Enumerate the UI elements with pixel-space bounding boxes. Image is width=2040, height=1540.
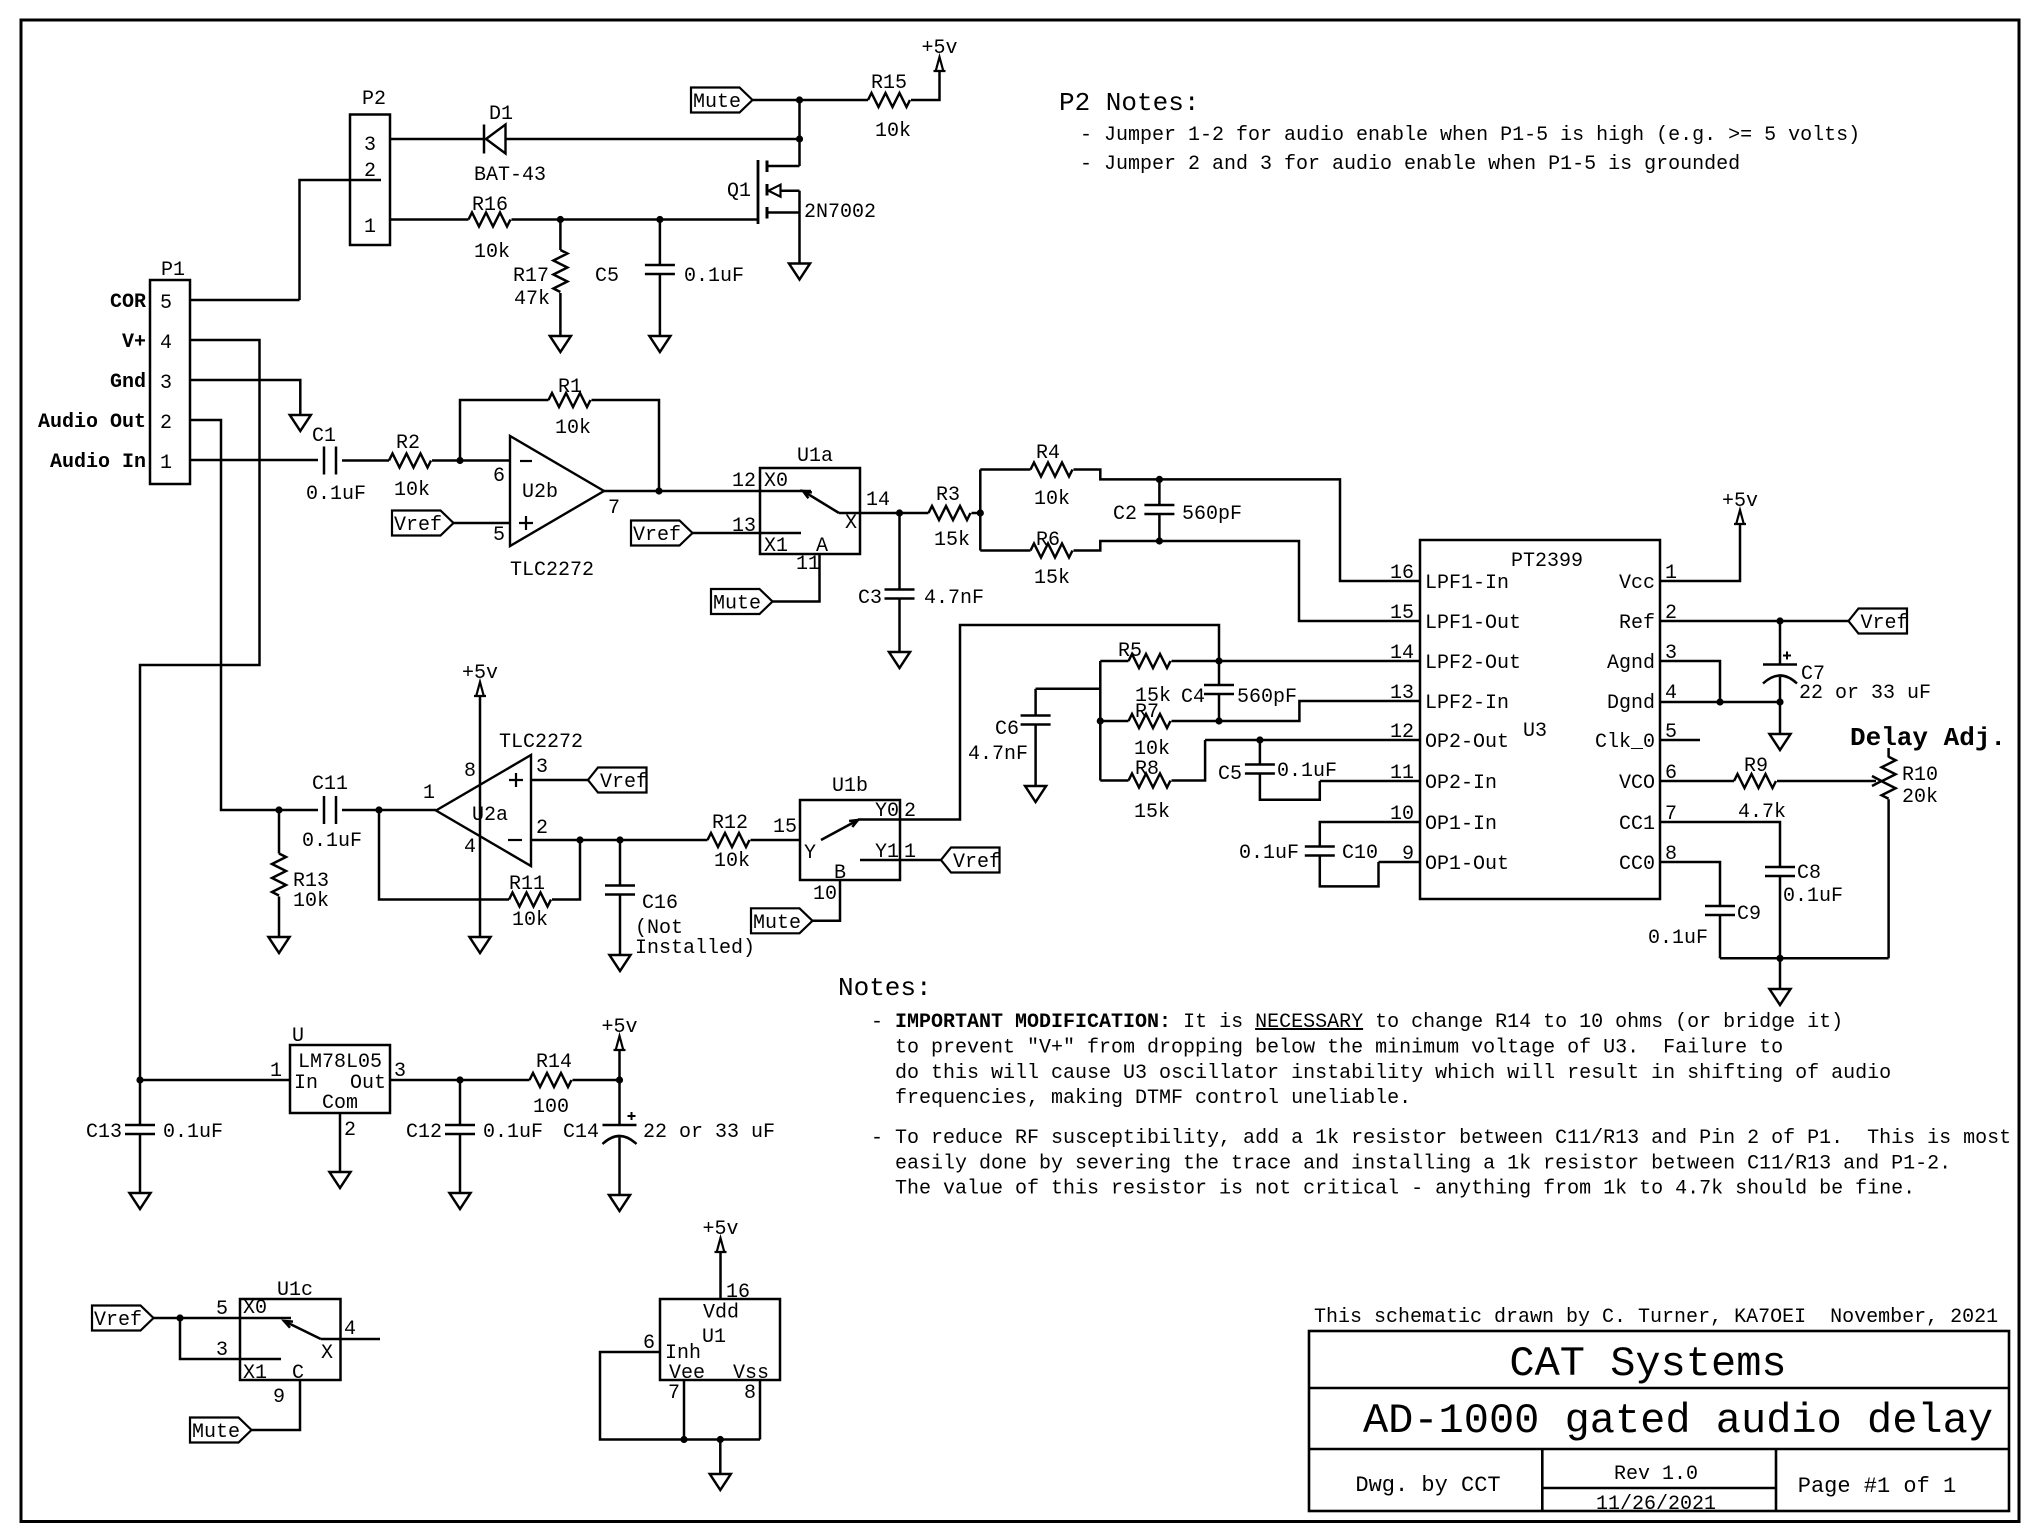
svg-text:8: 8 — [464, 760, 476, 783]
wire X node to R3 — [900, 512, 929, 515]
capacitor C8 0.1uF — [1765, 862, 1843, 958]
resistor R5 15k — [1100, 640, 1219, 708]
junction U1c X0/X1 — [176, 1314, 183, 1321]
analog switch U1b — [773, 775, 916, 906]
capacitor C9 0.1uF — [1648, 903, 1761, 958]
svg-text:In: In — [294, 1072, 318, 1095]
junction R17 tap — [557, 216, 564, 223]
svg-text:10k: 10k — [293, 890, 329, 913]
svg-text:OP2-Out: OP2-Out — [1425, 731, 1509, 754]
junction C2 bottom — [1156, 537, 1163, 544]
ground CC bus — [1770, 989, 1791, 1005]
svg-text:Vref: Vref — [394, 514, 442, 537]
svg-text:Y: Y — [804, 842, 816, 865]
junction R5 right / pin14 node — [1215, 657, 1222, 664]
svg-text:Com: Com — [322, 1092, 358, 1115]
wire C2 bottom to U3 pin15 — [1159, 541, 1420, 621]
resistor R17 47k — [513, 220, 567, 337]
text note 1 — [871, 1011, 1891, 1110]
resistor R15 10k — [868, 72, 911, 143]
svg-text:C14: C14 — [563, 1121, 599, 1144]
svg-text:13: 13 — [1390, 682, 1414, 705]
svg-text:R11: R11 — [509, 873, 545, 896]
potentiometer R10 20k Delay Adj — [1882, 748, 1938, 958]
svg-text:7: 7 — [608, 497, 620, 520]
svg-text:14: 14 — [866, 489, 890, 512]
resistor R14 100 — [530, 1051, 573, 1119]
junction U2b output — [655, 487, 662, 494]
wire U1b Y0 to LPF2 node — [900, 625, 1219, 820]
svg-text:3: 3 — [364, 134, 376, 157]
svg-text:easily done by severing the tr: easily done by severing the trace and in… — [895, 1153, 1951, 1176]
svg-text:Mute: Mute — [753, 912, 801, 935]
capacitor C5 0.1uF — [595, 220, 744, 337]
wire U2a power rail — [479, 696, 482, 937]
diode D1 BAT-43 — [474, 103, 546, 187]
wire U3 Dgnd node — [1660, 701, 1780, 704]
svg-text:Notes:: Notes: — [838, 973, 932, 1003]
svg-text:CAT Systems: CAT Systems — [1509, 1340, 1786, 1388]
svg-text:TLC2272: TLC2272 — [499, 731, 583, 754]
junction C3 node — [896, 509, 903, 516]
wire C1 to R2 — [342, 459, 389, 462]
resistor R6 15k — [980, 529, 1159, 590]
svg-text:2: 2 — [536, 817, 548, 840]
svg-text:Dwg. by CCT: Dwg. by CCT — [1355, 1473, 1500, 1498]
svg-text:OP2-In: OP2-In — [1425, 772, 1497, 795]
ground C5 — [649, 336, 670, 352]
svg-text:C3: C3 — [858, 587, 882, 610]
IC U1 power pins — [643, 1299, 780, 1405]
svg-text:4: 4 — [344, 1318, 356, 1341]
resistor R2 10k — [389, 432, 431, 502]
svg-text:- Jumper 1-2 for audio enable: - Jumper 1-2 for audio enable when P1-5 … — [1080, 124, 1860, 147]
svg-text:Audio Out: Audio Out — [38, 411, 146, 434]
resistor R3 15k — [929, 484, 971, 552]
svg-text:X0: X0 — [243, 1297, 267, 1320]
resistor R16 10k — [469, 194, 511, 264]
wire Mute to U1a A pin11 — [773, 554, 820, 602]
svg-text:R5: R5 — [1118, 640, 1142, 663]
net tag Vref (U1a X1) — [631, 521, 693, 548]
svg-text:Clk_0: Clk_0 — [1595, 731, 1655, 754]
junction ground drop — [717, 1436, 724, 1443]
ground C13 — [130, 1193, 151, 1209]
svg-text:9: 9 — [1402, 843, 1414, 866]
svg-text:0.1uF: 0.1uF — [1783, 885, 1843, 908]
connector P2 — [350, 88, 390, 245]
svg-text:15k: 15k — [934, 529, 970, 552]
wire P1-1 Audio In — [190, 459, 318, 462]
svg-text:5: 5 — [493, 524, 505, 547]
svg-text:15k: 15k — [1034, 567, 1070, 590]
switch U1c wiper — [284, 1321, 321, 1339]
wire P1-2 Audio Out — [190, 420, 318, 810]
svg-text:R6: R6 — [1036, 529, 1060, 552]
wire bottom bus to ground — [1779, 958, 1782, 989]
svg-text:U1a: U1a — [797, 445, 833, 468]
svg-text:BAT-43: BAT-43 — [474, 164, 546, 187]
wire U1b Y0 stub — [858, 818, 900, 821]
svg-text:+5v: +5v — [1722, 490, 1758, 513]
svg-text:CC1: CC1 — [1619, 813, 1655, 836]
wire U3 Clk_0 stub — [1660, 739, 1700, 742]
wire +5v to U1 Vdd — [721, 1252, 751, 1304]
transistor Q1 2N7002 — [727, 160, 876, 264]
wire U1 bus to ground — [719, 1440, 722, 1475]
junction R4/R6 rail — [977, 509, 984, 516]
text Dwg. by CCT — [1355, 1473, 1500, 1498]
svg-text:R2: R2 — [396, 432, 420, 455]
net tag Mute (U1b B) — [751, 908, 813, 935]
svg-text:8: 8 — [744, 1382, 756, 1405]
svg-text:0.1uF: 0.1uF — [302, 830, 362, 853]
wire U1 Vss pin8 — [759, 1380, 762, 1440]
svg-text:P1: P1 — [161, 259, 185, 282]
svg-text:The value of this resistor is: The value of this resistor is not critic… — [895, 1178, 1915, 1201]
svg-text:C8: C8 — [1797, 862, 1821, 885]
svg-text:Vcc: Vcc — [1619, 572, 1655, 595]
svg-text:+5v: +5v — [601, 1016, 637, 1039]
text CAT Systems — [1509, 1340, 1786, 1388]
svg-text:11/26/2021: 11/26/2021 — [1596, 1493, 1716, 1516]
wire U1c X output — [321, 1338, 380, 1341]
svg-text:X1: X1 — [243, 1362, 267, 1385]
wire C2 top to U3 pin16 — [1159, 479, 1420, 581]
switch U1a wiper — [803, 491, 839, 513]
wire R14 to +5v node — [573, 1079, 620, 1082]
capacitor C12 0.1uF — [406, 1080, 543, 1193]
svg-text:TLC2272: TLC2272 — [510, 559, 594, 582]
ground R17 — [550, 336, 571, 352]
svg-text:2: 2 — [160, 412, 172, 435]
capacitor C6 4.7nF — [968, 689, 1100, 786]
svg-text:3: 3 — [160, 372, 172, 395]
svg-text:22 or 33 uF: 22 or 33 uF — [1799, 682, 1931, 705]
wire Vref to U2b pin5 — [454, 522, 511, 525]
svg-text:4.7k: 4.7k — [1738, 801, 1786, 824]
junction R7 right — [1215, 717, 1222, 724]
junction bottom bus — [1776, 955, 1783, 962]
svg-text:6: 6 — [493, 465, 505, 488]
junction C12 node — [456, 1076, 463, 1083]
svg-text:LM78L05: LM78L05 — [298, 1051, 382, 1074]
wire U3 Ref to Vref — [1660, 620, 1849, 623]
svg-text:0.1uF: 0.1uF — [163, 1121, 223, 1144]
capacitor C11 0.1uF — [302, 773, 362, 853]
svg-text:10k: 10k — [875, 120, 911, 143]
wire P2-1 to R16 — [390, 218, 469, 221]
svg-text:Vdd: Vdd — [703, 1302, 739, 1325]
wire R16 to Q1 gate — [512, 218, 759, 221]
svg-text:- To reduce RF susceptibility,: - To reduce RF susceptibility, add a 1k … — [871, 1127, 2011, 1150]
svg-text:C4: C4 — [1181, 686, 1205, 709]
wire Mute to R15 — [753, 99, 868, 102]
wire R5/R7 left rail — [1099, 661, 1102, 781]
svg-text:2: 2 — [904, 800, 916, 823]
svg-text:X1: X1 — [764, 535, 788, 558]
svg-text:16: 16 — [1390, 562, 1414, 585]
junction C5 tap — [656, 216, 663, 223]
ground P1-3 — [290, 415, 311, 431]
svg-text:U1c: U1c — [277, 1279, 313, 1302]
wire Vref to U1c X0 — [154, 1317, 292, 1320]
junction C2 top — [1156, 476, 1163, 483]
net tag Mute (gate node) — [691, 88, 753, 115]
net tag Mute (U1a A) — [711, 589, 773, 616]
svg-text:R4: R4 — [1036, 442, 1060, 465]
wire U2a pin3 to Vref — [531, 779, 588, 782]
svg-text:This schematic drawn by C. Tur: This schematic drawn by C. Turner, KA7OE… — [1314, 1306, 1998, 1329]
svg-text:C13: C13 — [86, 1121, 122, 1144]
text Notes — [838, 973, 932, 1003]
wire U1 Vee pin7 — [683, 1380, 686, 1440]
text drawn-by credit — [1314, 1306, 1998, 1329]
op-amp U2b TLC2272 — [493, 436, 620, 582]
svg-text:11: 11 — [796, 553, 820, 576]
analog switch U1a — [732, 445, 890, 576]
svg-text:R9: R9 — [1744, 755, 1768, 778]
svg-text:22 or 33 uF: 22 or 33 uF — [643, 1121, 775, 1144]
junction C16 node — [616, 836, 623, 843]
wire R8 to U3 pin12 — [1205, 739, 1420, 742]
wire U1 Inh loop — [600, 1352, 760, 1440]
ground R13 — [269, 937, 290, 953]
wire C11 to U2a pin1 — [342, 809, 436, 812]
wire U3 Vcc to +5v — [1660, 524, 1740, 581]
power +5v (U1 Vdd) — [702, 1218, 738, 1252]
svg-text:7: 7 — [668, 1382, 680, 1405]
wire U3 CC0 to C9 — [1660, 862, 1720, 906]
junction C5 (OP2) node — [1256, 736, 1263, 743]
wire D1 to Q1 drain node — [506, 138, 800, 141]
svg-text:Page #1 of 1: Page #1 of 1 — [1798, 1474, 1956, 1499]
wire pin14 LPF2-Out — [1219, 660, 1420, 663]
svg-text:4.7nF: 4.7nF — [924, 587, 984, 610]
wire P2-3 to D1 — [390, 138, 484, 141]
connector P1 — [38, 259, 190, 484]
wire U1a X output — [839, 512, 900, 515]
wire CC0/CC1 bottom bus — [1720, 957, 1889, 960]
svg-text:AD-1000 gated audio delay: AD-1000 gated audio delay — [1363, 1397, 1993, 1445]
svg-text:12: 12 — [732, 470, 756, 493]
svg-text:2N7002: 2N7002 — [804, 201, 876, 224]
net tag Vref (U1c X0) — [92, 1306, 154, 1333]
svg-text:Q1: Q1 — [727, 180, 751, 203]
wire P2-2 to P1-5 — [300, 180, 382, 300]
svg-text:Vref: Vref — [633, 524, 681, 547]
capacitor C2 560pF — [1113, 479, 1242, 541]
svg-text:frequencies, making DTMF contr: frequencies, making DTMF control uneliab… — [895, 1087, 1411, 1110]
svg-text:C5: C5 — [595, 265, 619, 288]
svg-text:+5v: +5v — [462, 662, 498, 685]
svg-text:10k: 10k — [394, 479, 430, 502]
ground C7 — [1770, 734, 1791, 750]
svg-text:560pF: 560pF — [1182, 503, 1242, 526]
junction V+ / C13 — [136, 1076, 143, 1083]
svg-text:- IMPORTANT MODIFICATION: It i: - IMPORTANT MODIFICATION: It is NECESSAR… — [871, 1011, 1843, 1034]
svg-text:U: U — [292, 1025, 304, 1048]
svg-text:1: 1 — [423, 782, 435, 805]
svg-text:C5: C5 — [1218, 763, 1242, 786]
junction R1 left node — [456, 457, 463, 464]
svg-text:0.1uF: 0.1uF — [684, 265, 744, 288]
capacitor C5 0.1uF (OP2) — [1218, 740, 1337, 800]
svg-text:U3: U3 — [1523, 720, 1547, 743]
svg-text:10k: 10k — [512, 909, 548, 932]
svg-text:100: 100 — [533, 1096, 569, 1119]
svg-text:C1: C1 — [312, 425, 336, 448]
svg-text:R1: R1 — [558, 376, 582, 399]
svg-text:Dgnd: Dgnd — [1607, 692, 1655, 715]
svg-text:3: 3 — [536, 756, 548, 779]
capacitor C16 not installed — [605, 840, 755, 960]
svg-text:R7: R7 — [1135, 701, 1159, 724]
ground Q1 source — [789, 264, 810, 280]
svg-text:COR: COR — [110, 291, 146, 314]
wire V+ to regulator In — [140, 1079, 290, 1082]
wire regulator Out to R14 — [390, 1079, 530, 1082]
svg-text:C: C — [292, 1362, 304, 1385]
ground C12 — [450, 1193, 471, 1209]
ground C14 — [609, 1195, 630, 1211]
svg-text:10k: 10k — [474, 241, 510, 264]
svg-text:do this will cause U3 oscillat: do this will cause U3 oscillator instabi… — [895, 1062, 1891, 1085]
svg-text:Audio In: Audio In — [50, 451, 146, 474]
wire R11 left riser — [379, 810, 509, 900]
wire P1-4 V+ rail — [140, 340, 260, 1125]
text Delay Adj. — [1850, 723, 2006, 753]
resistor R7 10k — [1100, 701, 1219, 761]
wire R15 to +5v — [911, 71, 940, 100]
svg-text:C9: C9 — [1737, 903, 1761, 926]
svg-text:0.1uF: 0.1uF — [1277, 760, 1337, 783]
resistor R1 10k — [549, 376, 592, 440]
resistor R13 10k — [272, 810, 329, 937]
svg-text:Delay Adj.: Delay Adj. — [1850, 723, 2006, 753]
svg-text:Mute: Mute — [192, 1421, 240, 1444]
net tag Vref (U1b Y1) — [941, 848, 1001, 875]
text Rev 1.0 — [1614, 1463, 1698, 1486]
svg-text:R16: R16 — [472, 194, 508, 217]
net tag Mute (U1c C) — [190, 1418, 252, 1445]
junction C11/R13 node — [275, 806, 282, 813]
svg-text:U1b: U1b — [832, 775, 868, 798]
svg-text:OP1-Out: OP1-Out — [1425, 853, 1509, 876]
wire R11 right to U2a pin2 — [552, 840, 580, 900]
text date — [1596, 1493, 1716, 1516]
junction Mute node — [796, 96, 803, 103]
svg-text:D1: D1 — [489, 103, 513, 126]
svg-text:1: 1 — [160, 452, 172, 475]
wire C10 to U3 pin9 — [1379, 861, 1421, 864]
svg-text:14: 14 — [1390, 642, 1414, 665]
text P2 Notes — [1059, 88, 1860, 176]
svg-text:P2 Notes:: P2 Notes: — [1059, 88, 1199, 118]
svg-text:R17: R17 — [513, 265, 549, 288]
svg-text:C10: C10 — [1342, 842, 1378, 865]
net tag Vref (U3 Ref) — [1849, 609, 1909, 636]
wire U3 pin10 to C10 — [1320, 822, 1420, 847]
svg-text:0.1uF: 0.1uF — [306, 483, 366, 506]
wire U1b Y1 to Vref — [860, 859, 941, 862]
svg-text:C6: C6 — [995, 718, 1019, 741]
svg-text:1: 1 — [270, 1060, 282, 1083]
svg-text:10: 10 — [813, 883, 837, 906]
junction D1 node — [796, 135, 803, 142]
power +5v (U3 Vcc) — [1722, 490, 1758, 524]
power +5v (U2a) — [462, 662, 498, 696]
title block table — [1309, 1331, 2009, 1511]
svg-text:0.1uF: 0.1uF — [483, 1121, 543, 1144]
wire regulator Com pin2 — [340, 1113, 356, 1172]
ground C16 — [610, 955, 631, 971]
svg-text:4: 4 — [464, 836, 476, 859]
svg-text:10k: 10k — [714, 850, 750, 873]
svg-text:Ref: Ref — [1619, 612, 1655, 635]
wire U3 Agnd to Dgnd — [1660, 661, 1720, 702]
svg-text:4.7nF: 4.7nF — [968, 743, 1028, 766]
resistor R12 10k — [708, 812, 751, 873]
switch U1b wiper — [821, 820, 858, 840]
svg-text:9: 9 — [273, 1386, 285, 1409]
svg-text:11: 11 — [1390, 762, 1414, 785]
capacitor C4 560pF — [1181, 661, 1297, 721]
power +5v (R14) — [601, 1016, 637, 1050]
svg-text:U2a: U2a — [472, 804, 508, 827]
svg-text:LPF1-Out: LPF1-Out — [1425, 612, 1521, 635]
text AD-1000 gated audio delay — [1363, 1397, 1993, 1445]
wire Mute to U1b B pin10 — [813, 880, 840, 921]
svg-text:1: 1 — [364, 216, 376, 239]
svg-text:2: 2 — [344, 1119, 356, 1142]
svg-text:5: 5 — [216, 1298, 228, 1321]
svg-text:+5v: +5v — [921, 37, 957, 60]
net tag Vref (U2b pin5) — [392, 511, 454, 538]
wire U2b out to U1a X0 — [604, 490, 811, 493]
svg-text:Installed): Installed) — [635, 937, 755, 960]
svg-text:PT2399: PT2399 — [1511, 550, 1583, 573]
capacitor C14 22-33uF — [563, 1080, 775, 1195]
svg-text:CC0: CC0 — [1619, 853, 1655, 876]
svg-text:15k: 15k — [1134, 801, 1170, 824]
ground C3 — [889, 652, 910, 668]
svg-text:R14: R14 — [536, 1051, 572, 1074]
wire U1c X1 branch — [180, 1318, 281, 1359]
svg-text:Agnd: Agnd — [1607, 652, 1655, 675]
svg-text:Vref: Vref — [1861, 612, 1909, 635]
wire R4/R6 left rail — [979, 470, 982, 551]
svg-text:LPF2-Out: LPF2-Out — [1425, 652, 1521, 675]
regulator U LM78L05 — [270, 1025, 406, 1115]
svg-text:Vref: Vref — [94, 1309, 142, 1332]
text note 2 — [871, 1127, 2011, 1201]
svg-text:3: 3 — [216, 1339, 228, 1362]
resistor R4 10k — [980, 442, 1159, 511]
svg-text:to prevent "V+" from dropping: to prevent "V+" from dropping below the … — [895, 1037, 1783, 1060]
power +5v (R15) — [921, 37, 957, 71]
svg-text:C2: C2 — [1113, 503, 1137, 526]
text Page 1 of 1 — [1798, 1474, 1956, 1499]
ground U1 — [710, 1474, 731, 1490]
ground C6 — [1025, 786, 1046, 802]
svg-text:C12: C12 — [406, 1121, 442, 1144]
wire U3 VCO to R9 — [1660, 780, 1734, 783]
ground LM78L05 — [330, 1172, 351, 1188]
svg-text:U1: U1 — [702, 1326, 726, 1349]
wire +5v riser — [618, 1050, 621, 1080]
capacitor C3 4.7nF — [858, 513, 984, 652]
